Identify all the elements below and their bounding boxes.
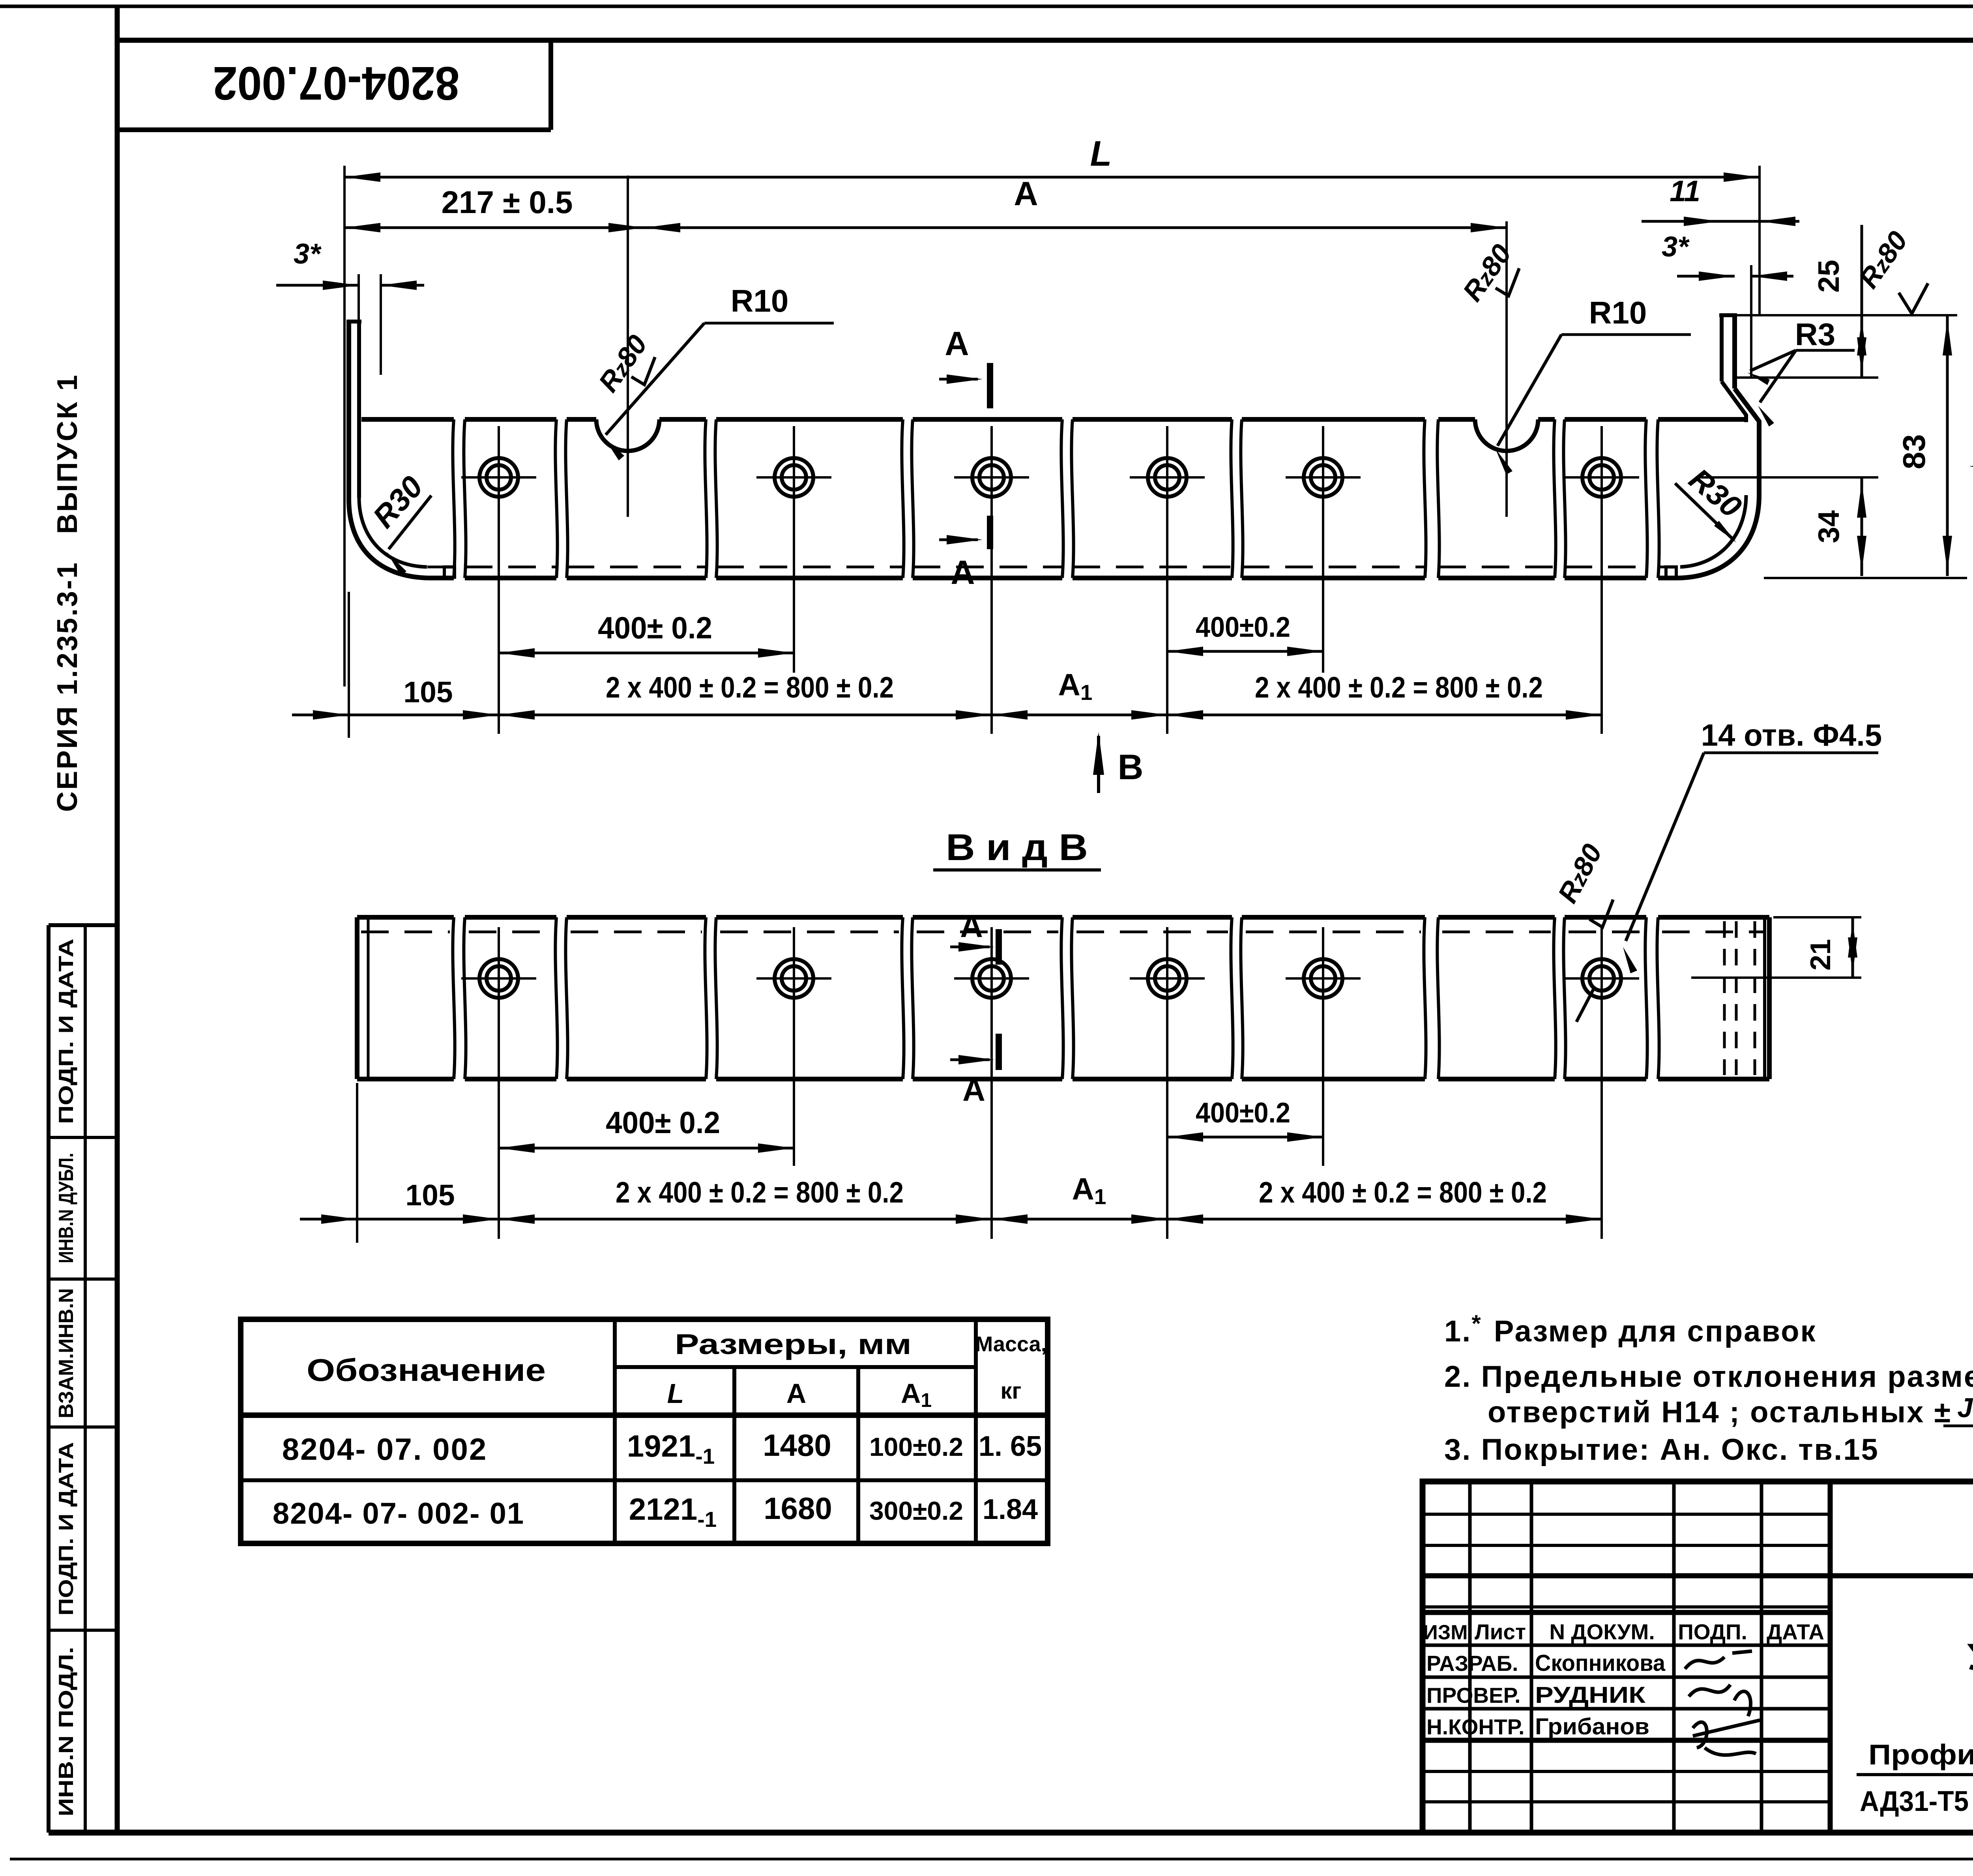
svg-text:ПОДП. И ДАТА: ПОДП. И ДАТА — [55, 939, 78, 1124]
svg-text:1.*Размер для справок: 1.*Размер для справок — [1444, 1310, 1817, 1348]
svg-text:РАЗРАБ.: РАЗРАБ. — [1426, 1651, 1518, 1676]
svg-text:Профиль СПА-2106: Профиль СПА-2106 — [1868, 1739, 1973, 1771]
main view left bend outer arc R30 — [349, 499, 428, 578]
extension flange top right — [1737, 314, 1957, 316]
svg-text:A: A — [962, 1072, 985, 1107]
dimension 105 — [292, 714, 349, 716]
view V dim 2x400 right — [992, 1218, 1602, 1221]
main view hole 4 — [1148, 458, 1187, 497]
view V hole 2 — [775, 959, 813, 998]
drawing frame top line — [116, 38, 1973, 43]
svg-text:отверстий Н14 ; остальных ±: отверстий Н14 ; остальных ± — [1488, 1395, 1952, 1429]
svg-text:400±0.2: 400±0.2 — [1196, 612, 1290, 643]
extension R3 end — [1737, 376, 1878, 379]
svg-text:2. Предельные отклонения раз: 2. Предельные отклонения размеров: — [1444, 1360, 1973, 1393]
main view segment 5 — [913, 417, 1062, 422]
svg-text:21: 21 — [1805, 939, 1836, 971]
svg-text:217 ± 0.5: 217 ± 0.5 — [441, 185, 573, 220]
view V hole 1 — [479, 959, 518, 998]
svg-text:2 x 400 ± 0.2 = 800 ± 0.2: 2 x 400 ± 0.2 = 800 ± 0.2 — [616, 1176, 904, 1209]
svg-text:3*: 3* — [294, 238, 322, 270]
top-left inverted code box — [116, 127, 551, 132]
svg-text:Грибанов: Грибанов — [1535, 1714, 1649, 1739]
R30 label left — [389, 496, 431, 549]
main view hole 5 — [1304, 458, 1342, 497]
main view segment 9 — [1565, 417, 1646, 422]
view V right end solid edge — [1763, 917, 1766, 1079]
svg-text:34: 34 — [1812, 510, 1845, 543]
svg-text:400± 0.2: 400± 0.2 — [598, 610, 712, 645]
svg-text:400± 0.2: 400± 0.2 — [606, 1105, 720, 1140]
main view segment 10 — [1658, 417, 1746, 422]
main view left bend inner arc — [359, 498, 427, 567]
main view segment 2 — [465, 417, 556, 422]
title block reserve row lines — [1423, 1513, 1830, 1516]
view V hole 4 — [1148, 959, 1187, 998]
svg-text:R10: R10 — [731, 283, 789, 318]
svg-text:РУДНИК: РУДНИК — [1535, 1682, 1646, 1708]
view V segment 6 — [1073, 915, 1232, 920]
main view notch 1 semicircle R10 — [596, 419, 659, 451]
left margin strip boxes — [47, 925, 51, 1833]
dimension 400 first row right — [1167, 650, 1323, 653]
svg-text:B: B — [1118, 748, 1144, 787]
svg-text:N ДОКУМ.: N ДОКУМ. — [1549, 1620, 1655, 1644]
svg-text:83: 83 — [1896, 434, 1932, 469]
svg-text:25: 25 — [1812, 260, 1845, 292]
dimension 2x400 row right — [992, 714, 1602, 716]
main view right S-bend inner — [1722, 382, 1746, 422]
L extension right — [1758, 166, 1761, 316]
R30 label right — [1675, 483, 1734, 541]
hole centerline extensions — [498, 537, 500, 734]
svg-text:14 отв. Ф4.5: 14 отв. Ф4.5 — [1701, 718, 1882, 752]
dimension 2x400 row left — [349, 714, 992, 716]
view V segment 10 — [1658, 915, 1769, 920]
svg-text:Н.КОНТР.: Н.КОНТР. — [1426, 1715, 1524, 1739]
svg-text:Скопникова: Скопникова — [1535, 1650, 1666, 1676]
svg-text:3. Покрытие: Ан. Окс. тв.15: 3. Покрытие: Ан. Окс. тв.15 — [1444, 1433, 1879, 1466]
svg-text:ВЗАМ.ИНВ.N: ВЗАМ.ИНВ.N — [55, 1288, 78, 1418]
page top border line — [0, 5, 1973, 8]
title block line code cell bottom — [1423, 1573, 1973, 1579]
main view right flange inner line — [1720, 315, 1724, 382]
view V segment 5 — [913, 915, 1062, 920]
section A mark lower — [987, 516, 993, 549]
main view right bend inner arc — [1680, 495, 1746, 567]
svg-text:Уголок: Уголок — [1967, 1636, 1973, 1678]
svg-text:1480: 1480 — [763, 1428, 831, 1463]
dimension 25 right — [1861, 315, 1863, 378]
main view right flange top cap — [1719, 313, 1737, 317]
view V dim 400 row right — [1167, 1136, 1323, 1139]
table column lines — [613, 1319, 617, 1543]
svg-text:R10: R10 — [1589, 295, 1647, 330]
main view right flange outer line — [1732, 315, 1737, 389]
view V hole centerline extensions — [498, 1038, 500, 1239]
R10 leader notch2 — [1561, 333, 1691, 336]
main view left end small notch — [444, 567, 455, 577]
svg-text:A: A — [951, 554, 975, 591]
view V hole 6 — [1582, 959, 1621, 998]
svg-text:1. 65: 1. 65 — [979, 1431, 1042, 1462]
view V segment 2 — [465, 915, 556, 920]
view V segment 7 — [1242, 915, 1425, 920]
svg-text:ПОДП.: ПОДП. — [1678, 1620, 1747, 1644]
svg-text:2 x 400 ± 0.2 = 800 ± 0.2: 2 x 400 ± 0.2 = 800 ± 0.2 — [1259, 1176, 1547, 1209]
dimension 11 line — [1642, 220, 1720, 223]
main view hole 1 — [479, 458, 518, 497]
L extension left — [343, 166, 346, 686]
main view right bend outer arc R30 — [1679, 495, 1759, 578]
view V right end dashed folds — [1723, 921, 1726, 1075]
dimension 3* right — [1677, 275, 1735, 278]
view V section A lower — [996, 1034, 1002, 1070]
dimension 34 — [1861, 477, 1863, 576]
main view right end small notch — [1666, 567, 1676, 577]
view V segment 8 — [1438, 915, 1555, 920]
drawing frame left line — [115, 6, 120, 1835]
svg-text:Обозначение: Обозначение — [307, 1352, 546, 1388]
main view segment 3 — [567, 417, 596, 422]
svg-text:1680: 1680 — [764, 1491, 832, 1526]
svg-text:11: 11 — [1670, 174, 1700, 208]
svg-text:8204-07.002: 8204-07.002 — [213, 57, 460, 110]
main view segment 4 — [716, 417, 903, 422]
dimension L line — [344, 176, 1760, 179]
view V arrow direction marker — [1097, 736, 1100, 793]
view V dim 400 row left — [499, 1147, 794, 1150]
dimension 400 first row left — [499, 652, 794, 655]
svg-text:СЕРИЯ 1.235.3-1: СЕРИЯ 1.235.3-1 — [52, 561, 83, 812]
main view segment 6 — [1073, 417, 1232, 422]
svg-text:L: L — [1090, 134, 1112, 174]
view V segment 1 — [357, 915, 454, 920]
title block vertical lines left part — [1468, 1481, 1472, 1833]
svg-text:2 x 400 ± 0.2 = 800 ± 0.2: 2 x 400 ± 0.2 = 800 ± 0.2 — [1255, 671, 1543, 704]
svg-text:Лист: Лист — [1475, 1620, 1526, 1644]
svg-text:Размеры, мм: Размеры, мм — [675, 1329, 912, 1360]
svg-text:A: A — [945, 325, 969, 363]
svg-text:ИЗМ: ИЗМ — [1423, 1621, 1468, 1644]
extension bottom right — [1764, 577, 1967, 579]
main view hole 6 — [1582, 458, 1621, 497]
svg-text:ПРОВЕР.: ПРОВЕР. — [1426, 1683, 1520, 1708]
svg-text:A: A — [960, 909, 983, 944]
svg-text:R3: R3 — [1795, 317, 1835, 352]
view V dim 105 — [300, 1218, 357, 1221]
svg-text:3*: 3* — [1662, 231, 1690, 263]
main view left flange outer line — [346, 322, 351, 501]
view V left extension — [356, 1083, 358, 1243]
view V hole 3 — [972, 959, 1011, 998]
dimension 83 — [1946, 315, 1949, 576]
page bottom rule — [10, 1858, 1973, 1861]
part left extension to dims — [348, 592, 350, 738]
main view segment 7 — [1242, 417, 1425, 422]
main view segment 8 — [1438, 417, 1475, 422]
svg-text:105: 105 — [405, 1178, 455, 1212]
table row lines — [615, 1365, 976, 1369]
dimension A line — [644, 226, 1507, 229]
dimension 217 line — [344, 226, 644, 229]
svg-text:1.84: 1.84 — [983, 1494, 1038, 1525]
title block outline — [1423, 1481, 1973, 1833]
main view left flange inner line — [357, 322, 361, 498]
view V left end lines — [355, 917, 359, 1079]
notch centerline extensions — [627, 176, 629, 517]
svg-text:2 x 400 ± 0.2 = 800 ± 0.2: 2 x 400 ± 0.2 = 800 ± 0.2 — [606, 671, 894, 704]
view V segment 9 — [1565, 915, 1646, 920]
svg-text:ИНВ.N ПОДЛ.: ИНВ.N ПОДЛ. — [55, 1647, 78, 1816]
svg-text:кг: кг — [1000, 1378, 1021, 1404]
svg-text:ПОДП. И ДАТА: ПОДП. И ДАТА — [55, 1442, 78, 1616]
main view right S-bend outer — [1735, 389, 1759, 495]
svg-text:100±0.2: 100±0.2 — [869, 1432, 963, 1461]
view V section A upper — [996, 929, 1002, 965]
view V segment 4 — [716, 915, 903, 920]
svg-text:ДАТА: ДАТА — [1767, 1620, 1824, 1644]
view V dim 2x400 left — [357, 1218, 992, 1221]
table outer border — [241, 1319, 1048, 1543]
svg-text:A: A — [786, 1378, 807, 1409]
main view notch 2 semicircle R10 — [1475, 419, 1538, 451]
svg-text:АД31-Т5 ГОСТ 22233-76: АД31-Т5 ГОСТ 22233-76 — [1860, 1786, 1973, 1817]
R10 leader notch1 — [704, 322, 834, 325]
main view hole 3 — [972, 458, 1011, 497]
svg-text:L: L — [667, 1378, 684, 1409]
svg-text:JT14: JT14 — [1957, 1392, 1973, 1423]
main view segment 1 — [361, 417, 454, 422]
dimension 3* left — [276, 284, 359, 287]
svg-text:A: A — [1014, 175, 1038, 213]
svg-text:105: 105 — [403, 675, 453, 709]
svg-text:ИНВ.N ДУБЛ.: ИНВ.N ДУБЛ. — [55, 1153, 78, 1263]
title block header row line — [1423, 1610, 1830, 1615]
extension hole6 centerline right — [1701, 476, 1878, 479]
svg-text:300±0.2: 300±0.2 — [869, 1496, 963, 1525]
section A mark upper — [987, 363, 993, 408]
svg-text:400±0.2: 400±0.2 — [1196, 1097, 1290, 1129]
svg-text:Масса,: Масса, — [975, 1332, 1046, 1356]
view V hole 5 — [1304, 959, 1342, 998]
svg-text:8204- 07. 002: 8204- 07. 002 — [282, 1432, 487, 1466]
drawing frame bottom line — [49, 1830, 1973, 1836]
svg-text:ВЫПУСК 1: ВЫПУСК 1 — [52, 373, 83, 534]
main view hole 2 — [775, 458, 813, 497]
view V dim 21 — [1773, 916, 1861, 918]
svg-text:В и д В: В и д В — [946, 827, 1088, 868]
svg-text:8204- 07- 002- 01: 8204- 07- 002- 01 — [273, 1497, 524, 1530]
view V right centerline — [1691, 976, 1861, 979]
main view left flange top cap — [346, 320, 361, 324]
view V segment 3 — [567, 915, 706, 920]
